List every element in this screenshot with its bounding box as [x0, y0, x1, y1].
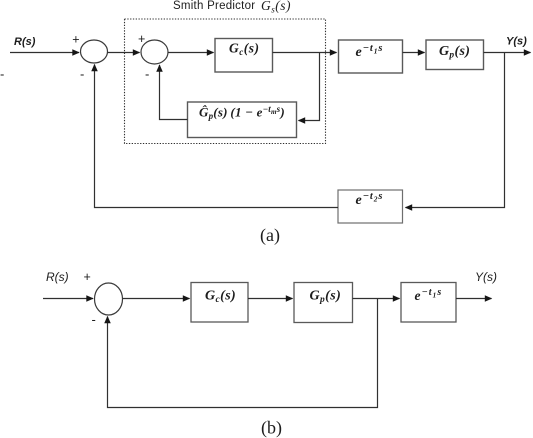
svg-text:Y(s): Y(s): [506, 36, 527, 48]
svg-text:Gp(s): Gp(s): [310, 289, 342, 306]
svg-text:Y(s): Y(s): [475, 270, 497, 284]
svg-text:-: -: [145, 67, 149, 82]
svg-text:-: -: [0, 67, 4, 82]
svg-text:Gp(s): Gp(s): [439, 44, 470, 61]
svg-text:+: +: [84, 270, 91, 284]
svg-text:R(s): R(s): [46, 270, 69, 284]
svg-text:Smith Predictor: Smith Predictor: [173, 0, 255, 12]
svg-text:Gc(s): Gc(s): [229, 41, 260, 58]
svg-text:Gc(s): Gc(s): [205, 289, 236, 306]
svg-text:-: -: [80, 67, 84, 82]
svg-text:R(s): R(s): [14, 36, 36, 48]
svg-text:+: +: [72, 33, 79, 47]
svg-text:-: -: [92, 312, 96, 327]
svg-text:(b): (b): [261, 417, 282, 438]
svg-text:(a): (a): [260, 225, 280, 246]
svg-text:Gs(s): Gs(s): [261, 0, 291, 15]
